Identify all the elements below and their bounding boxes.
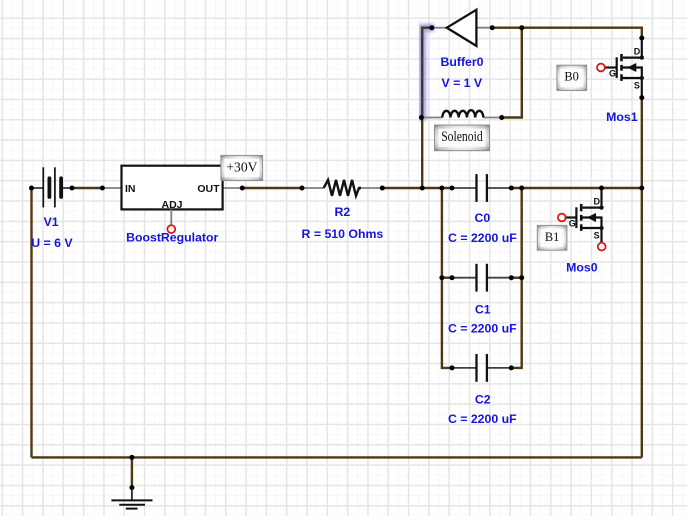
node: bottom rail junction with ground stub (129, 455, 134, 460)
svg-text:G: G (609, 69, 616, 79)
node: C1 right terminal (509, 275, 514, 280)
wire: R2 right terminal to main rail node (382, 187, 452, 189)
node: main rail junction with solenoid branch (420, 186, 425, 191)
capacitor C1 (452, 264, 511, 292)
svg-text:G: G (569, 219, 576, 229)
node: battery minus terminal (29, 186, 34, 191)
wire: buffer output node down to solenoid right terminal (502, 28, 522, 118)
node: Mos0 drain junction on main rail (599, 186, 604, 191)
label box B1 (537, 225, 567, 250)
wire: bottom ground rail (32, 456, 642, 458)
node: main rail junction with cap bank right (519, 186, 524, 191)
svg-text:C0: C0 (475, 211, 491, 225)
label C0 (475, 211, 491, 225)
wire: capacitor bank right vertical (511, 188, 521, 368)
label Mos0 (566, 260, 598, 274)
wire: C1 row left stub (442, 277, 452, 279)
value label C = 2200 uF (448, 231, 517, 245)
node: bank left junction at C1 (439, 275, 444, 280)
node: regulator IN terminal (100, 186, 105, 191)
svg-text:Solenoid: Solenoid (441, 129, 483, 145)
node: buffer output terminal (490, 25, 495, 30)
wire: battery plus to regulator IN terminal (72, 187, 102, 189)
value label V = 1 V (441, 76, 482, 90)
svg-text:V1: V1 (44, 215, 59, 229)
svg-text:D: D (634, 46, 641, 56)
wire (selected, blue glow): solenoid left terminal up to buffer input (422, 28, 432, 118)
node: main rail T junction with right vertical (639, 186, 644, 191)
svg-text:V = 1 V: V = 1 V (441, 76, 482, 90)
svg-text:B0: B0 (564, 70, 578, 84)
pin ADJ lead (170, 209, 172, 225)
node: battery plus terminal (70, 186, 75, 191)
svg-text:Mos1: Mos1 (606, 110, 638, 124)
node: C0 left terminal (450, 186, 455, 191)
label Mos1 (606, 110, 638, 124)
svg-text:ADJ: ADJ (161, 199, 182, 211)
node: Mos1 gate open terminal (red circle) (597, 64, 605, 72)
label V1 (44, 215, 59, 229)
label box Solenoid (435, 125, 490, 151)
label C1 (475, 302, 491, 316)
svg-text:C2: C2 (475, 393, 491, 407)
node: C2 left terminal (450, 365, 455, 370)
wire: C1 row right stub (511, 277, 521, 279)
svg-text:D: D (593, 196, 600, 206)
svg-text:BoostRegulator: BoostRegulator (126, 231, 218, 245)
transistor Q1 Mos1 (MOSFET) (605, 38, 644, 98)
svg-text:+30V: +30V (226, 159, 257, 174)
svg-text:R = 510 Ohms: R = 510 Ohms (302, 227, 384, 241)
label BoostRegulator (126, 231, 218, 245)
svg-text:C = 2200 uF: C = 2200 uF (448, 231, 517, 245)
node: ground stub bottom terminal (129, 485, 134, 490)
op-amp U1 BoostRegulator block (102, 166, 242, 211)
wire: capacitor bank left vertical (442, 188, 452, 368)
label box B0 (557, 65, 587, 90)
svg-text:Mos0: Mos0 (566, 260, 598, 274)
value label C = 2200 uF (448, 412, 517, 426)
wire: left vertical from battery minus to bottom rail (30, 188, 32, 457)
label box +30V (221, 155, 263, 180)
label Buffer0 (440, 55, 483, 69)
capacitor C0 (452, 174, 511, 202)
node: top rail junction above solenoid (519, 25, 524, 30)
node: ADJ open terminal (red circle) (167, 225, 175, 233)
node: R2 right terminal (380, 186, 385, 191)
wire: solenoid left terminal down to main rail (421, 118, 423, 189)
node: R2 left terminal (300, 186, 305, 191)
svg-text:R2: R2 (335, 205, 351, 219)
node: bank right junction at C1 (519, 275, 524, 280)
wire: top rail from buffer output to Mos1 drain (492, 28, 642, 38)
svg-text:C1: C1 (475, 302, 491, 316)
inductor Solenoid (421, 110, 501, 117)
node: C0 right terminal (509, 186, 514, 191)
svg-text:S: S (634, 80, 640, 90)
node: buffer input terminal (429, 25, 434, 30)
svg-text:U = 6 V: U = 6 V (31, 236, 73, 250)
node: Mos0 source open terminal (red circle) (598, 243, 606, 251)
buffer Buffer0 (triangle) (433, 10, 492, 46)
svg-text:C = 2200 uF: C = 2200 uF (448, 322, 517, 336)
wire: regulator OUT terminal to R2 left terminal (242, 187, 302, 189)
svg-text:C = 2200 uF: C = 2200 uF (448, 412, 517, 426)
battery V1 (32, 167, 73, 207)
node: solenoid right terminal (499, 115, 504, 120)
node: C1 left terminal (450, 275, 455, 280)
node: Mos1 source terminal (639, 95, 644, 100)
wire: ground stub from bottom rail (131, 457, 133, 487)
ground (111, 488, 152, 509)
svg-text:OUT: OUT (197, 183, 220, 195)
svg-text:S: S (594, 230, 600, 240)
capacitor C2 (452, 354, 511, 382)
transistor Q2 Mos0 (MOSFET) (565, 188, 604, 243)
value label C = 2200 uF (448, 322, 517, 336)
wire: right vertical from Mos1 source down to bottom rail (641, 98, 643, 458)
svg-text:IN: IN (125, 183, 136, 195)
svg-text:Buffer0: Buffer0 (440, 55, 483, 69)
node: C2 right terminal (509, 365, 514, 370)
label R2 (335, 205, 351, 219)
value label R = 510 Ohms (302, 227, 384, 241)
node: regulator OUT terminal (240, 186, 245, 191)
node: Mos0 gate open terminal (red circle) (558, 214, 566, 222)
label C2 (475, 393, 491, 407)
node: Mos1 drain terminal (639, 36, 644, 41)
node: solenoid left terminal (419, 115, 424, 120)
svg-text:B1: B1 (545, 230, 559, 244)
value label U = 6 V (31, 236, 73, 250)
wire: main rail C0 right terminal to Mos1 vertical (511, 187, 642, 189)
node: main rail junction with cap bank left (439, 186, 444, 191)
resistor R2 (302, 180, 382, 196)
